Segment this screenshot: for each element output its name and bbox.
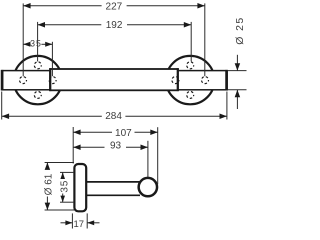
bar left end cap xyxy=(1,70,4,91)
svg-text:17: 17 xyxy=(74,219,85,230)
side view thin lines xyxy=(45,127,158,229)
dim 17 line left xyxy=(61,222,73,224)
arrow 192 right xyxy=(184,22,191,28)
arrowheads top view xyxy=(2,3,240,119)
svg-text:227: 227 xyxy=(106,1,123,12)
ext line bar right end down xyxy=(226,92,228,120)
dimension texts top view xyxy=(30,1,246,122)
ext line 17 left xyxy=(71,213,73,228)
dia25 bottom ext line xyxy=(228,89,247,91)
arrow 35 left xyxy=(23,42,30,47)
svg-text:35: 35 xyxy=(60,180,71,193)
arrow 284 right xyxy=(220,114,227,120)
arrow 17 right-pointing (left side) xyxy=(65,220,72,225)
svg-text:107: 107 xyxy=(115,128,132,139)
support arm stub top line xyxy=(87,181,140,183)
svg-text:192: 192 xyxy=(106,20,123,31)
arrow 93 left xyxy=(73,145,80,151)
thin dimension / extension lines xyxy=(2,3,247,119)
ext line 35 bottom xyxy=(60,201,74,203)
wall plate side view (rounded rect) xyxy=(74,164,86,211)
ext line right hole right flange (x=205.1) xyxy=(204,3,206,76)
dim 192 line xyxy=(38,24,102,26)
bar wide middle sleeve xyxy=(50,69,178,90)
dim 284 line xyxy=(2,115,102,117)
svg-text:93: 93 xyxy=(110,141,122,152)
arrow 227 right xyxy=(197,3,204,9)
dim 17 line right xyxy=(87,222,99,224)
support arm stub bottom line xyxy=(87,194,140,196)
ext line dia61 top xyxy=(45,162,74,164)
sleeve left step edge xyxy=(49,68,51,91)
bar cross-section circle xyxy=(139,178,157,196)
arrow dia25 down (top) xyxy=(235,63,241,70)
ext line bar left end down xyxy=(1,92,3,120)
svg-text:Ø 25: Ø 25 xyxy=(234,16,246,44)
arrow 17 left-pointing (right side) xyxy=(87,220,94,225)
dim 227 line xyxy=(23,5,101,7)
dim 107 line xyxy=(73,131,112,133)
dim 35 side line segments xyxy=(62,172,64,176)
svg-text:35: 35 xyxy=(30,38,42,48)
flange left (wall plate circle) xyxy=(14,56,62,104)
dia25 top ext line xyxy=(228,70,247,72)
ext line bar axis (x=147.9) xyxy=(147,141,149,178)
bar right end cap xyxy=(225,70,228,91)
dimension texts side view xyxy=(43,128,132,230)
arrowheads side view xyxy=(45,129,158,225)
ext line hole left (x=22.9) xyxy=(22,3,24,76)
ext line right hole left flange (x=52.7) xyxy=(51,42,53,76)
dim 35 top line xyxy=(23,43,30,45)
arrow 192 left xyxy=(38,22,45,28)
ext line bar outer (x=157.7) xyxy=(157,127,159,184)
ext line top hole right flange (x=190.2) xyxy=(190,22,192,62)
arrow 93 right xyxy=(141,145,148,151)
dia61 dim line segments xyxy=(46,163,48,168)
ext line 35 top xyxy=(60,171,74,173)
flange right (wall plate circle) xyxy=(166,56,214,104)
screw holes left flange (dashed) xyxy=(20,62,209,99)
dim 93 line xyxy=(73,146,104,148)
arrow 107 right xyxy=(150,129,157,135)
ext line wall face (x=73.8) xyxy=(72,127,74,164)
bar narrow section (full length, drawn over flanges) xyxy=(2,71,227,90)
arrow dia61 up xyxy=(45,163,51,170)
sleeve right step edge xyxy=(177,68,179,91)
arrow 35 side up xyxy=(60,172,65,179)
arrow 35 right xyxy=(45,42,52,47)
arrow dia61 down xyxy=(45,203,51,210)
arrow 107 left xyxy=(73,129,80,135)
dia25 dim line vertical xyxy=(236,55,238,71)
ext line 17 right xyxy=(86,213,88,228)
screw holes right flange (dashed) xyxy=(172,77,179,84)
arrow 227 left xyxy=(23,3,30,9)
ext line dia61 bottom xyxy=(45,209,74,211)
arrow dia25 up (bottom) xyxy=(235,90,241,97)
arrow 35 side down xyxy=(60,196,65,203)
svg-text:284: 284 xyxy=(105,111,122,122)
ext line top hole left flange (x=37.8) xyxy=(37,22,39,62)
arrow 284 left xyxy=(2,114,9,120)
svg-text:Ø 61: Ø 61 xyxy=(43,173,54,195)
